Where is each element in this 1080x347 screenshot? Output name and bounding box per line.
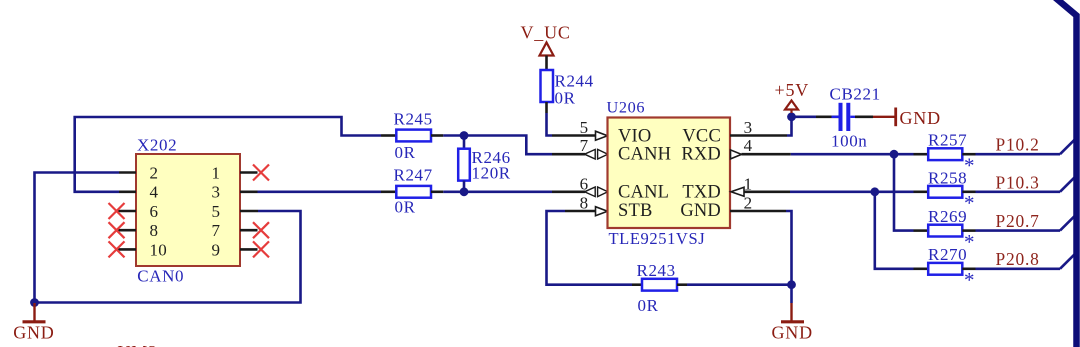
U206 pin 1 input triangle — [731, 187, 744, 196]
svg-text:GND: GND — [680, 201, 721, 221]
wire pin3 to R247 — [258, 191, 382, 194]
bus entry P20.7 — [1060, 214, 1077, 231]
svg-text:4: 4 — [744, 136, 753, 155]
X202 pin 7 stub — [240, 229, 258, 232]
no-ERC X on pin 10 — [109, 241, 125, 257]
wire RXD net — [791, 153, 914, 156]
resistor R245 right stub — [431, 134, 443, 137]
wire pin2 to ground vertical — [35, 173, 120, 303]
resistor R270 left stub — [914, 267, 929, 270]
svg-text:CB221: CB221 — [830, 84, 881, 103]
bus entry P20.8 — [1060, 252, 1077, 269]
X202 pin 10 stub — [117, 248, 136, 251]
svg-text:R245: R245 — [394, 109, 433, 128]
resistor R257 left stub — [914, 153, 929, 156]
svg-text:CANH: CANH — [618, 145, 671, 165]
svg-text:U206: U206 — [607, 98, 646, 117]
resistor R258 left stub — [914, 191, 929, 194]
capacitor CB221 right lead — [855, 116, 873, 119]
svg-text:10: 10 — [150, 240, 167, 259]
svg-text:+5V: +5V — [775, 80, 810, 100]
svg-text:9: 9 — [212, 240, 221, 259]
X202 pin 1 stub — [240, 171, 258, 174]
svg-text:P10.2: P10.2 — [996, 135, 1040, 155]
wire TXD branch down to R270 — [875, 192, 914, 269]
svg-text:8: 8 — [580, 194, 589, 213]
X202 pin 3 stub — [240, 191, 258, 194]
wire to P10.3 — [976, 191, 1061, 194]
svg-text:3: 3 — [744, 118, 753, 137]
U206 pin 4 stub — [742, 153, 791, 156]
svg-text:STB: STB — [618, 201, 653, 221]
resistor R245 left stub — [381, 134, 396, 137]
wire R246 bottom to junction — [463, 181, 466, 192]
wire to P20.8 — [976, 267, 1061, 270]
junction RXD branch — [890, 150, 899, 159]
svg-text:CAN0: CAN0 — [137, 267, 184, 286]
wire ground stem blue part — [790, 285, 793, 303]
X202 pin 6 stub — [117, 210, 136, 213]
svg-text:0R: 0R — [395, 143, 416, 162]
ground bar port wire — [873, 116, 896, 118]
pin 8 input triangle — [596, 207, 608, 216]
ground symbol left — [23, 303, 46, 322]
wire R245 to CANH step — [443, 136, 552, 155]
wire pin3 to +5V node — [787, 117, 792, 136]
resistor R247 right stub — [431, 191, 443, 194]
wire to P10.2 — [976, 153, 1061, 156]
wire STB loop — [547, 211, 633, 285]
resistor R258 right stub — [962, 191, 975, 194]
svg-text:VCC: VCC — [682, 126, 721, 146]
svg-text:R257: R257 — [928, 130, 967, 149]
resistor R269 right stub — [962, 229, 975, 232]
svg-text:UM2: UM2 — [118, 342, 158, 347]
R244 bottom stub — [545, 102, 548, 113]
V_UC stem — [545, 56, 548, 71]
ground symbol right — [781, 303, 804, 322]
svg-text:0R: 0R — [395, 198, 416, 217]
no-ERC X on pin 7 — [253, 222, 269, 238]
junction ground right — [787, 280, 796, 289]
wire RXD branch down to R269 — [894, 154, 914, 230]
node junction R246/R247 — [460, 187, 469, 196]
wire R247 to CANL — [443, 191, 552, 194]
wire to P20.7 — [976, 229, 1061, 232]
resistor R269 — [928, 225, 962, 237]
resistor R246 — [458, 149, 470, 181]
svg-text:R270: R270 — [928, 245, 967, 264]
svg-text:120R: 120R — [472, 164, 511, 183]
node junction R245/R246 — [460, 131, 469, 140]
resistor R269 left stub — [914, 229, 929, 232]
svg-text:X202: X202 — [137, 135, 177, 154]
U206 pin 4 output triangle — [731, 150, 742, 159]
svg-text:7: 7 — [212, 221, 221, 240]
resistor R257 — [928, 148, 962, 160]
X202 pin 9 stub — [240, 248, 258, 251]
svg-text:VIO: VIO — [618, 126, 651, 146]
svg-text:8: 8 — [150, 221, 159, 240]
U206 pin 3 stub — [730, 134, 787, 137]
wire TXD net — [790, 191, 914, 194]
capacitor CB221 plates — [841, 103, 849, 131]
svg-text:R243: R243 — [637, 261, 676, 280]
svg-text:TLE9251VSJ: TLE9251VSJ — [609, 229, 706, 248]
svg-text:V_UC: V_UC — [521, 22, 571, 42]
U206 pin 6 stub — [552, 191, 585, 194]
IC U206 body — [608, 118, 731, 229]
wire +5V to capacitor — [792, 116, 817, 119]
X202 pin 2 stub — [119, 171, 136, 174]
resistor R270 — [928, 263, 962, 275]
resistor R270 right stub — [962, 267, 975, 270]
svg-text:0R: 0R — [555, 88, 576, 107]
svg-text:R258: R258 — [928, 168, 967, 187]
resistor R243 left stub — [632, 283, 642, 286]
+5V stem — [790, 110, 792, 114]
svg-text:GND: GND — [13, 323, 54, 343]
resistor R244 — [541, 70, 554, 102]
svg-text:P10.3: P10.3 — [996, 172, 1040, 192]
no-ERC X on pin 8 — [109, 222, 125, 238]
svg-text:6: 6 — [150, 202, 159, 221]
no-ERC X on pin 6 — [109, 203, 125, 219]
pin 6 bidir triangles — [585, 187, 608, 197]
wire junction to R246 top — [463, 136, 466, 149]
resistor R258 — [928, 186, 962, 198]
bus line right — [1055, 0, 1077, 347]
power node +5V junction — [787, 112, 796, 121]
U206 pin 7 stub — [552, 153, 585, 156]
svg-text:R247: R247 — [394, 165, 433, 184]
no-ERC X on pin 9 — [253, 241, 269, 257]
svg-text:RXD: RXD — [681, 145, 721, 165]
wire ground bottom horizontal to pin5 — [35, 211, 301, 303]
resistor R257 right stub — [962, 153, 975, 156]
svg-text:2: 2 — [744, 194, 753, 213]
svg-text:2: 2 — [150, 163, 159, 182]
svg-text:CANL: CANL — [618, 183, 669, 203]
svg-text:5: 5 — [580, 118, 589, 137]
svg-text:TXD: TXD — [682, 183, 721, 203]
pin 7 bidir triangles — [585, 149, 608, 159]
svg-text:6: 6 — [580, 175, 589, 194]
connector X202 body — [136, 154, 240, 266]
pin 5 input triangle — [596, 131, 608, 140]
resistor R247 — [396, 186, 431, 198]
svg-text:GND: GND — [772, 323, 813, 343]
power port V_UC arrow — [540, 43, 554, 56]
bus entry P10.2 — [1060, 137, 1077, 154]
wire pin4 over the top to R245 — [75, 117, 381, 192]
no-ERC X on pin 1 — [253, 165, 269, 181]
X202 pin 4 stub — [119, 191, 136, 194]
power port +5V arrow — [785, 101, 798, 110]
resistor R245 — [396, 130, 431, 142]
svg-text:7: 7 — [580, 136, 589, 155]
svg-text:0R: 0R — [638, 296, 659, 315]
wire pin2 down to ground node — [786, 211, 792, 285]
U206 pin 5 stub — [552, 134, 596, 137]
U206 pin 8 stub — [565, 210, 596, 213]
junction ground left — [30, 298, 39, 307]
junction TXD branch — [870, 187, 879, 196]
capacitor CB221 left lead — [816, 116, 839, 119]
U206 pin 2 stub — [730, 210, 786, 213]
X202 pin 8 stub — [117, 229, 136, 232]
svg-text:4: 4 — [150, 183, 159, 202]
svg-text:R269: R269 — [928, 207, 967, 226]
resistor R243 right stub — [677, 283, 687, 286]
capacitor CB221 left stub blue — [832, 116, 839, 118]
svg-text:*: * — [964, 268, 975, 292]
svg-text:100n: 100n — [831, 132, 867, 151]
svg-text:GND: GND — [900, 108, 941, 128]
svg-text:P20.8: P20.8 — [996, 249, 1040, 269]
U206 pin 1 stub — [744, 191, 790, 194]
bus entry P10.3 — [1060, 175, 1077, 192]
svg-text:1: 1 — [212, 163, 221, 182]
wire R243 to ground node — [687, 283, 792, 286]
svg-text:5: 5 — [212, 202, 221, 221]
ground bar — [894, 108, 897, 127]
X202 pin 5 stub — [240, 210, 258, 213]
resistor R243 — [642, 279, 677, 291]
wire R244 to VIO — [547, 113, 553, 136]
svg-text:3: 3 — [212, 183, 221, 202]
capacitor CB221 right stub blue — [850, 116, 857, 118]
svg-text:P20.7: P20.7 — [996, 211, 1040, 231]
resistor R247 left stub — [381, 191, 396, 194]
